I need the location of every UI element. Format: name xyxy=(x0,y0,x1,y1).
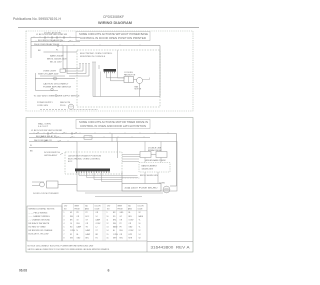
svg-text:ELECTRONIC OVEN CONTROL: ELECTRONIC OVEN CONTROL xyxy=(68,159,101,161)
svg-text:SWITCH LAMP 40W: SWITCH LAMP 40W xyxy=(38,73,59,76)
svg-text:TN: TN xyxy=(86,227,89,229)
svg-text:CAUTION: LABEL ALL WIRES PRIOR: CAUTION: LABEL ALL WIRES PRIOR TO DISCON… xyxy=(28,248,110,251)
svg-text:15: 15 xyxy=(107,234,109,236)
svg-text:FAN MOTOR: FAN MOTOR xyxy=(124,73,136,76)
wire oven light xyxy=(40,75,65,77)
svg-text:CODE: CODE xyxy=(138,209,144,211)
svg-text:COLOR: COLOR xyxy=(138,206,145,208)
figure 2 note box xyxy=(76,120,150,129)
svg-text:14: 14 xyxy=(96,216,98,218)
legend box xyxy=(27,206,62,241)
svg-text:8: 8 xyxy=(64,237,65,239)
svg-text:CORD 240V: CORD 240V xyxy=(37,105,49,107)
oven cavity box xyxy=(77,142,177,192)
figure 1 note box xyxy=(76,32,150,41)
svg-text:CONTROL IN DOOR OPEN POSITION: CONTROL IN DOOR OPEN POSITION PRINTED xyxy=(80,36,146,40)
receptacle circle xyxy=(68,104,73,109)
svg-text:COLOR: COLOR xyxy=(95,206,102,208)
svg-text:BK: BK xyxy=(30,151,33,153)
svg-text:GA: GA xyxy=(85,205,88,208)
relay box K1 xyxy=(124,77,134,83)
wire to receptacle xyxy=(40,108,68,110)
svg-text:CONV: CONV xyxy=(96,223,102,225)
svg-text:FROM: FROM xyxy=(75,209,81,211)
svg-text:LAMP: LAMP xyxy=(96,218,101,221)
wire box right xyxy=(58,184,77,186)
svg-text:EOC: EOC xyxy=(86,216,90,218)
wires below strip xyxy=(79,173,138,182)
svg-text:—— CABINET WIRING: —— CABINET WIRING xyxy=(29,215,51,218)
svg-text:GND: GND xyxy=(77,237,82,239)
receptacle slots xyxy=(70,106,72,109)
vertical wire B xyxy=(66,46,68,74)
svg-text:SW: SW xyxy=(70,237,73,239)
svg-text:GND: GND xyxy=(129,227,134,229)
svg-text:REL: REL xyxy=(77,223,80,225)
vertical wire tall xyxy=(118,50,126,78)
svg-text:P1: P1 xyxy=(56,50,58,52)
svg-text:LAMP: LAMP xyxy=(86,233,91,236)
svg-text:OR: OR xyxy=(129,223,132,225)
svg-text:CONV: CONV xyxy=(129,230,135,232)
table header text xyxy=(64,205,144,211)
oven motor M3 xyxy=(163,186,170,193)
table header row line xyxy=(62,210,147,212)
svg-text:L1 BK DOOR SW LATCH BR SW: L1 BK DOOR SW LATCH BR SW xyxy=(36,33,67,36)
svg-text:BROIL 3600W 240V: BROIL 3600W 240V xyxy=(140,175,159,177)
svg-text:16: 16 xyxy=(107,237,109,239)
svg-text:Publications No. 5995578191-H: Publications No. 5995578191-H xyxy=(13,17,61,21)
svg-text:MOTOR: MOTOR xyxy=(135,89,142,91)
ground symbol circle xyxy=(51,88,53,90)
svg-text:6: 6 xyxy=(64,230,65,232)
svg-text:OR: OR xyxy=(96,212,99,214)
svg-text:REL: REL xyxy=(113,223,116,225)
element dashed box xyxy=(139,163,170,173)
svg-text:CODE: CODE xyxy=(95,209,101,211)
svg-text:YL: YL xyxy=(139,227,141,229)
svg-text:YL: YL xyxy=(139,219,141,221)
flat terminal box xyxy=(122,184,161,192)
switch marks on bus 3 xyxy=(44,140,61,141)
svg-text:— — FIELD WIRING: — — FIELD WIRING xyxy=(29,213,48,215)
svg-text:3400W 240V: 3400W 240V xyxy=(142,169,154,171)
svg-text:GY: GY xyxy=(86,219,89,221)
svg-text:GND: GND xyxy=(120,212,125,214)
relay link wire xyxy=(151,154,156,156)
svg-text:DOOR SWITCH: DOOR SWITCH xyxy=(44,152,60,154)
connector teeth P1 xyxy=(105,72,115,74)
svg-text:BL: BL xyxy=(77,234,79,236)
vertical wire inside box xyxy=(121,172,123,184)
svg-text:RD RED GY GRAY: RD RED GY GRAY xyxy=(29,226,47,229)
svg-text:REL: REL xyxy=(70,216,73,218)
svg-text:OR: OR xyxy=(120,219,123,221)
svg-text:NO: NO xyxy=(107,209,110,211)
switch marks on L2 xyxy=(52,40,71,41)
svg-text:16: 16 xyxy=(139,223,141,225)
svg-text:REL: REL xyxy=(120,237,123,239)
wire motor down xyxy=(93,84,160,97)
svg-text:HIDDEN BAKE 2300W: HIDDEN BAKE 2300W xyxy=(145,159,166,162)
svg-text:18: 18 xyxy=(77,219,79,221)
svg-text:P2: P2 xyxy=(120,223,122,225)
svg-text:1: 1 xyxy=(64,212,65,214)
svg-text:BL: BL xyxy=(113,230,115,232)
wire code ticks fig2 xyxy=(34,132,168,141)
wire stub row xyxy=(44,51,78,53)
relay contact box upper xyxy=(140,152,151,158)
svg-text:OR: OR xyxy=(77,216,80,218)
svg-text:-·-· CHASSIS GROUND: -·-· CHASSIS GROUND xyxy=(29,219,51,222)
svg-text:NOTICE: DISCONNECT ELECTRIC PO: NOTICE: DISCONNECT ELECTRIC POWER BEFORE… xyxy=(28,246,95,248)
svg-text:16: 16 xyxy=(70,223,72,225)
svg-text:POWER BEFORE SERVICE: POWER BEFORE SERVICE xyxy=(43,87,72,89)
svg-text:P2: P2 xyxy=(86,212,88,214)
svg-text:PK: PK xyxy=(77,212,80,214)
wire relay to motor xyxy=(134,79,137,81)
svg-text:N: N xyxy=(30,145,32,147)
svg-text:BK: BK xyxy=(38,50,41,52)
svg-text:BAKE 2600W: BAKE 2600W xyxy=(50,55,64,58)
relay box divider xyxy=(128,77,130,83)
svg-text:BRL: BRL xyxy=(129,216,132,218)
svg-text:RD: RD xyxy=(70,227,73,229)
svg-text:WIRE: WIRE xyxy=(75,206,80,208)
svg-text:BK BLACK WH WHITE: BK BLACK WH WHITE xyxy=(29,222,50,225)
svg-text:CONV: CONV xyxy=(113,234,119,236)
svg-text:EOC: EOC xyxy=(68,161,73,163)
svg-text:2: 2 xyxy=(64,216,65,218)
svg-text:HTR: HTR xyxy=(129,234,133,236)
svg-text:12: 12 xyxy=(139,230,141,232)
svg-text:PK: PK xyxy=(120,227,123,229)
svg-text:GA: GA xyxy=(128,205,131,208)
vertical wire A xyxy=(62,46,64,69)
terminal circles on L1 xyxy=(44,37,46,39)
bus wire 3 xyxy=(29,141,77,143)
svg-text:CONV: CONV xyxy=(70,230,76,232)
svg-text:14: 14 xyxy=(139,234,141,236)
svg-text:AWG: AWG xyxy=(128,208,133,211)
svg-text:10: 10 xyxy=(107,216,109,218)
wire N xyxy=(31,46,160,97)
door lock box xyxy=(47,181,59,188)
svg-text:20A 240V FUSE BK-RD: 20A 240V FUSE BK-RD xyxy=(125,187,159,190)
svg-text:WIRING DIAGRAM: WIRING DIAGRAM xyxy=(98,21,132,25)
svg-text:13: 13 xyxy=(107,227,109,229)
svg-text:CONTROL IN OVEN AND DOOR LATCH: CONTROL IN OVEN AND DOOR LATCH POSITION xyxy=(80,124,146,128)
wire motor right hook xyxy=(143,78,150,80)
svg-text:BR: BR xyxy=(96,234,99,236)
switch marks on bus 1 xyxy=(36,132,77,133)
wiring table grid xyxy=(62,204,147,242)
wire bottom run 2 xyxy=(95,196,142,198)
wire code ticks fig1 xyxy=(34,36,140,45)
wire N2 xyxy=(29,147,58,149)
svg-text:L1 BK DOOR SW LATCH SW BR: L1 BK DOOR SW LATCH SW BR xyxy=(31,129,63,132)
svg-text:REL: REL xyxy=(120,230,123,232)
svg-text:LAMP: LAMP xyxy=(77,226,82,229)
svg-text:9: 9 xyxy=(107,212,108,214)
svg-text:MTR: MTR xyxy=(129,237,133,239)
table cell text xyxy=(64,212,144,239)
svg-text:BRL: BRL xyxy=(113,219,116,221)
svg-text:BROIL 3000W 240V: BROIL 3000W 240V xyxy=(47,59,67,61)
wire bundle EOC to right components xyxy=(122,155,140,162)
svg-text:5: 5 xyxy=(64,227,65,229)
svg-text:MTR: MTR xyxy=(113,237,117,239)
wire bus left of strip xyxy=(63,69,89,77)
svg-text:CONV: CONV xyxy=(159,183,165,185)
svg-text:L2: L2 xyxy=(96,227,98,229)
bus wire 2 xyxy=(29,137,150,139)
rev box vertical line xyxy=(146,242,148,253)
table column lines xyxy=(74,204,137,242)
svg-text:CKT: CKT xyxy=(107,206,110,208)
wires strip to relay xyxy=(107,73,125,81)
svg-text:WALL OVEN: WALL OVEN xyxy=(38,123,51,126)
svg-text:OR: OR xyxy=(120,234,123,236)
svg-text:OVEN LIGHT: OVEN LIGHT xyxy=(43,71,57,73)
console feed wires xyxy=(80,62,99,97)
svg-text:CAUTION: DISCONNECT: CAUTION: DISCONNECT xyxy=(43,83,69,86)
console dashed box xyxy=(77,50,160,107)
switch marks on bus 2 xyxy=(40,136,73,137)
terminal circles bus 1 xyxy=(47,133,49,135)
fan motor M1 xyxy=(137,78,143,84)
wire bottom run xyxy=(85,192,163,194)
connector strip P2 xyxy=(75,169,110,172)
header rule xyxy=(18,27,199,29)
wire lower to motor xyxy=(32,185,40,187)
wire receptacle right xyxy=(74,108,99,110)
figure 2 border xyxy=(26,118,193,253)
svg-text:GY: GY xyxy=(120,216,123,218)
wire L2 xyxy=(31,41,80,43)
legend rows xyxy=(29,213,53,236)
svg-text:BL BLUE YL YELLOW: BL BLUE YL YELLOW xyxy=(29,234,49,236)
relay contact box lower xyxy=(156,152,167,158)
svg-text:S2: S2 xyxy=(139,212,141,214)
svg-text:7: 7 xyxy=(64,234,65,236)
feed verticals into box xyxy=(112,134,118,159)
svg-text:BK-10 115V: BK-10 115V xyxy=(50,62,62,64)
svg-text:H1: H1 xyxy=(70,212,72,214)
svg-text:6: 6 xyxy=(108,269,110,273)
svg-text:CONV: CONV xyxy=(129,219,135,221)
wire motor to bottom xyxy=(166,192,168,194)
svg-text:LAMP: LAMP xyxy=(86,229,91,232)
svg-text:BAKE ELEMENT: BAKE ELEMENT xyxy=(142,165,158,168)
left rail lower xyxy=(36,73,44,91)
relay feed verticals xyxy=(145,142,161,184)
svg-text:WIRING LEGEND NOTES: WIRING LEGEND NOTES xyxy=(29,209,55,211)
svg-text:LATCH MOTOR ASSY POSITION: LATCH MOTOR ASSY POSITION xyxy=(68,155,101,158)
svg-text:SOME CIRCUITS ACTIVATE WITHOUT: SOME CIRCUITS ACTIVATE WITHOUT POWER BAS… xyxy=(79,32,148,36)
svg-text:S2: S2 xyxy=(139,237,141,239)
svg-text:WIRE: WIRE xyxy=(118,206,123,208)
figure 1 border xyxy=(26,31,193,111)
svg-text:ELECTRONIC OVEN CONTROL: ELECTRONIC OVEN CONTROL xyxy=(80,53,113,55)
svg-text:11: 11 xyxy=(107,219,109,221)
svg-text:BAKE: BAKE xyxy=(139,215,144,218)
wire L1 xyxy=(31,37,80,39)
wire upper to motor xyxy=(32,181,44,183)
svg-text:AWG: AWG xyxy=(85,208,90,211)
svg-text:BL: BL xyxy=(129,212,131,214)
svg-text:N: N xyxy=(77,230,79,232)
wire lamp row xyxy=(35,78,75,80)
left rail wire xyxy=(30,38,32,59)
svg-text:BR BROWN OR ORANGE: BR BROWN OR ORANGE xyxy=(29,229,53,232)
lamp symbol on wire xyxy=(54,77,57,80)
node on N xyxy=(57,45,59,47)
svg-text:BRL: BRL xyxy=(86,237,89,239)
svg-text:4: 4 xyxy=(64,223,65,225)
svg-text:BAKE: BAKE xyxy=(113,226,118,229)
svg-text:12: 12 xyxy=(107,223,109,225)
svg-text:NO: NO xyxy=(64,209,67,211)
svg-text:FROM: FROM xyxy=(118,209,124,211)
svg-text:5.0 CU FT: 5.0 CU FT xyxy=(38,126,49,128)
svg-text:06.08: 06.08 xyxy=(19,269,27,273)
svg-text:VT: VT xyxy=(96,230,98,232)
svg-text:MOUNTED IN CONSOLE: MOUNTED IN CONSOLE xyxy=(80,56,106,58)
oven light boxes xyxy=(60,69,66,72)
svg-text:RD: RD xyxy=(113,216,116,218)
svg-text:S2: S2 xyxy=(70,234,72,236)
svg-text:LATCH ASSY: LATCH ASSY xyxy=(44,154,58,157)
connector teeth P2 xyxy=(77,171,110,173)
rev box horizontal line xyxy=(147,241,193,243)
svg-text:CKT: CKT xyxy=(64,206,67,208)
svg-text:PLUG: PLUG xyxy=(60,105,66,107)
svg-text:14: 14 xyxy=(107,230,109,232)
connector strip P1 xyxy=(104,69,117,72)
terminal marks on feed wires xyxy=(79,62,96,64)
vertical wire strip drop xyxy=(100,72,102,97)
svg-text:H1: H1 xyxy=(96,237,98,239)
svg-text:OR: OR xyxy=(86,223,89,225)
bus wire 1 xyxy=(29,134,177,187)
component box on bus 2 xyxy=(84,136,92,139)
door switch mark xyxy=(60,153,63,154)
svg-text:SOME CIRCUITS ACTIVATE MOTOR T: SOME CIRCUITS ACTIVATE MOTOR TIMER DRIVE… xyxy=(79,120,148,124)
svg-text:3: 3 xyxy=(64,219,65,221)
dotted wire to element xyxy=(122,177,140,179)
svg-text:316443800 REV A: 316443800 REV A xyxy=(151,246,191,250)
svg-text:BR: BR xyxy=(70,219,73,221)
svg-text:DOOR LOCK MOTOR ASSY: DOOR LOCK MOTOR ASSY xyxy=(33,192,59,195)
svg-text:BR: BR xyxy=(113,212,116,214)
oven motor hatch xyxy=(164,188,169,191)
wire ground row xyxy=(43,90,58,92)
svg-text:CPDS3085KF: CPDS3085KF xyxy=(103,15,124,19)
door lock motor M2 xyxy=(40,182,45,187)
EOC dashed box xyxy=(65,152,122,174)
ground clip circle xyxy=(55,95,57,97)
